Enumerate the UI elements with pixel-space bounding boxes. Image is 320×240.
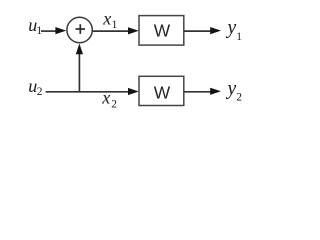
- node x1 label: [102, 9, 117, 31]
- svg-text:y: y: [226, 78, 237, 99]
- box W2: [139, 76, 184, 105]
- plus sign of summer: [76, 24, 85, 34]
- wire summer to box W1: [92, 30, 129, 32]
- wire box W1 to output arrow: [184, 30, 212, 32]
- svg-text:1: 1: [236, 31, 242, 43]
- arrowhead into summer from below: [76, 44, 83, 55]
- arrowhead output y2: [210, 88, 221, 95]
- svg-text:W: W: [154, 21, 171, 41]
- svg-text:W: W: [154, 82, 171, 102]
- wire u2 to box W2: [46, 91, 129, 93]
- wire branch vertical from u2 line up to summer: [78, 54, 80, 92]
- arrowhead into box W1: [128, 27, 139, 34]
- node y2 label: [226, 78, 243, 103]
- svg-text:2: 2: [236, 92, 242, 104]
- svg-text:x: x: [101, 88, 110, 108]
- wire box W2 to output arrow: [184, 91, 212, 93]
- svg-text:x: x: [102, 9, 111, 29]
- wire u1 to summer: [41, 30, 57, 32]
- arrowhead output y1: [210, 27, 221, 34]
- svg-text:1: 1: [112, 19, 118, 31]
- arrowhead into summer from u1: [55, 27, 66, 34]
- svg-text:y: y: [226, 18, 237, 39]
- node u2 label: [28, 76, 43, 98]
- summer S1 (adder circle): [67, 17, 92, 42]
- node u1 label: [28, 15, 42, 37]
- svg-text:2: 2: [111, 99, 117, 111]
- box W1: [139, 16, 184, 45]
- arrowhead into box W2: [128, 88, 139, 95]
- node x2 label: [101, 88, 117, 111]
- svg-text:2: 2: [37, 86, 43, 98]
- node y1 label: [226, 18, 243, 44]
